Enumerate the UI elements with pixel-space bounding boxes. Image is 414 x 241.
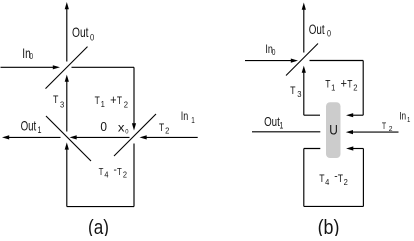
svg-text:T: T: [319, 173, 324, 185]
svg-text:2: 2: [353, 83, 358, 92]
svg-text:Out: Out: [264, 116, 280, 130]
svg-text:T: T: [117, 95, 122, 107]
svg-text:T: T: [347, 79, 352, 91]
svg-text:1: 1: [101, 99, 106, 108]
svg-text:In: In: [181, 110, 189, 124]
svg-text:1: 1: [331, 83, 336, 92]
svg-text:T: T: [338, 173, 343, 185]
svg-text:T: T: [325, 79, 330, 91]
svg-text:x: x: [118, 121, 125, 134]
svg-text:In: In: [399, 110, 406, 122]
svg-text:1: 1: [407, 117, 411, 125]
svg-text:T: T: [53, 94, 58, 106]
svg-text:(a): (a): [88, 216, 109, 236]
svg-text:4: 4: [325, 178, 330, 187]
svg-text:1: 1: [191, 115, 195, 125]
svg-text:+: +: [341, 76, 347, 91]
svg-text:U: U: [329, 122, 338, 138]
svg-text:1: 1: [279, 121, 283, 131]
svg-text:0: 0: [90, 32, 94, 43]
svg-text:2: 2: [123, 170, 127, 179]
svg-text:2: 2: [165, 126, 170, 135]
svg-text:T: T: [382, 121, 386, 131]
svg-text:(b): (b): [318, 217, 340, 236]
svg-text:T: T: [290, 85, 295, 97]
svg-text:Out: Out: [21, 119, 37, 134]
svg-text:Out: Out: [309, 22, 325, 38]
svg-text:T: T: [117, 166, 122, 177]
svg-text:1: 1: [38, 125, 42, 135]
svg-text:2: 2: [344, 178, 349, 187]
svg-text:0: 0: [125, 128, 129, 135]
svg-text:3: 3: [60, 100, 65, 109]
svg-text:+: +: [110, 92, 116, 107]
svg-text:Out: Out: [72, 25, 89, 41]
svg-text:0: 0: [100, 120, 107, 135]
svg-text:0: 0: [30, 51, 34, 61]
svg-text:2: 2: [124, 100, 129, 109]
svg-text:0: 0: [272, 47, 276, 57]
svg-text:3: 3: [297, 89, 302, 98]
svg-text:0: 0: [327, 29, 331, 39]
svg-text:4: 4: [104, 170, 109, 179]
svg-text:T: T: [99, 166, 104, 177]
svg-text:T: T: [159, 122, 164, 134]
svg-text:T: T: [95, 95, 100, 107]
svg-text:2: 2: [389, 125, 393, 133]
